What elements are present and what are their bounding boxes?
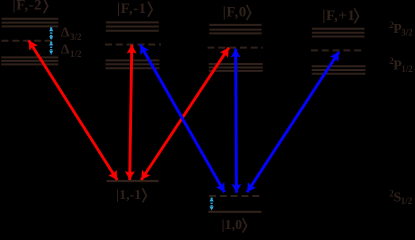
ground level |1,-1> line bbox=[107, 180, 159, 182]
red arrow R1 sigma- from |1,-1> to G1 bbox=[29, 40, 118, 180]
svg-text:|F,-2: |F,-2 bbox=[12, 0, 42, 14]
svg-text:1/2: 1/2 bbox=[401, 196, 413, 206]
label Delta1/2 bbox=[61, 42, 82, 59]
level line G4 P1/2 line a bbox=[312, 65, 366, 67]
level line G1 P1/2 line c bbox=[1, 63, 58, 65]
svg-text:1/2: 1/2 bbox=[70, 49, 82, 59]
red arrow R3 sigma+ from |1,-1> to G3 bbox=[141, 48, 229, 180]
virtual level G4 dashed bbox=[311, 49, 365, 51]
red arrow R2 pi from |1,-1> to G2 bbox=[130, 45, 132, 180]
level line G2 P3/2 line a bbox=[106, 21, 159, 23]
cyan arrow delta1/2 bbox=[50, 42, 52, 55]
level line G2 P1/2 line a bbox=[106, 59, 160, 61]
level line G2 P3/2 line c bbox=[106, 30, 159, 32]
blue arrow B2 pi from |1,0> to G3 bbox=[234, 49, 238, 193]
level line G4 P3/2 line b bbox=[312, 32, 365, 34]
level line G1 P3/2 F line a bbox=[2, 18, 59, 20]
virtual level G2 dashed bbox=[105, 44, 161, 46]
ket label |2,+1> bbox=[322, 8, 358, 24]
label Delta3/2 bbox=[61, 25, 82, 42]
ket label |2,-2> bbox=[12, 0, 47, 14]
ket label |2,0> bbox=[223, 5, 251, 21]
ground virtual dashed level (|1,0> shifted) bbox=[209, 195, 261, 197]
ket label |1,-1> bbox=[116, 188, 146, 203]
level line G4 P1/2 line c bbox=[312, 73, 366, 75]
svg-text:1/2: 1/2 bbox=[401, 64, 413, 74]
svg-text:|F,0: |F,0 bbox=[223, 5, 247, 21]
svg-text:3/2: 3/2 bbox=[401, 27, 413, 37]
level line G2 P1/2 line c bbox=[106, 67, 160, 69]
cyan arrow delta3/2 bbox=[50, 27, 52, 40]
level line G1 P1/2 line a bbox=[1, 56, 58, 58]
svg-text:|F,+1: |F,+1 bbox=[322, 8, 355, 24]
level line G3 P1/2 line b bbox=[209, 67, 263, 69]
virtual level G3 dashed bbox=[208, 47, 264, 49]
level line G3 P3/2 line b bbox=[209, 29, 261, 31]
level line G2 P1/2 line b bbox=[106, 63, 160, 65]
svg-text:|F,-1: |F,-1 bbox=[117, 1, 147, 17]
level line G1 P3/2 F line b bbox=[2, 22, 59, 24]
ket label |2,-1> bbox=[117, 1, 152, 17]
ket label |1,0> bbox=[222, 218, 247, 233]
virtual level G1 dashed bbox=[2, 40, 54, 42]
level line G4 P3/2 line c bbox=[312, 36, 365, 38]
svg-text:Δ: Δ bbox=[61, 42, 70, 57]
level line G3 P3/2 line c bbox=[209, 32, 261, 34]
level line G4 P1/2 line b bbox=[312, 69, 366, 71]
blue arrow B3 sigma+ from |1,0> to G4 bbox=[247, 52, 339, 193]
level line G1 P3/2 F line c bbox=[2, 25, 59, 27]
level line G2 P3/2 line b bbox=[106, 26, 159, 28]
ground level |1,0> line bbox=[208, 211, 261, 213]
level line G1 P1/2 line b bbox=[1, 60, 58, 62]
label 2P3/2 bbox=[389, 20, 413, 38]
label 2P1/2 bbox=[389, 56, 413, 74]
svg-text:|1,0: |1,0 bbox=[222, 218, 243, 233]
svg-text:Δ: Δ bbox=[61, 25, 70, 40]
svg-text:|1,-1: |1,-1 bbox=[116, 188, 141, 203]
cyan arrow ground shift bbox=[211, 198, 213, 211]
level line G3 P3/2 line a bbox=[209, 24, 261, 26]
level line G3 P1/2 line c bbox=[209, 70, 263, 72]
blue arrow B1 sigma- from |1,0> to G2 bbox=[140, 45, 224, 193]
level line G4 P3/2 line a bbox=[312, 28, 365, 30]
svg-text:3/2: 3/2 bbox=[70, 32, 82, 42]
level line G3 P1/2 line a bbox=[209, 63, 263, 65]
label 2S1/2 bbox=[389, 188, 413, 206]
